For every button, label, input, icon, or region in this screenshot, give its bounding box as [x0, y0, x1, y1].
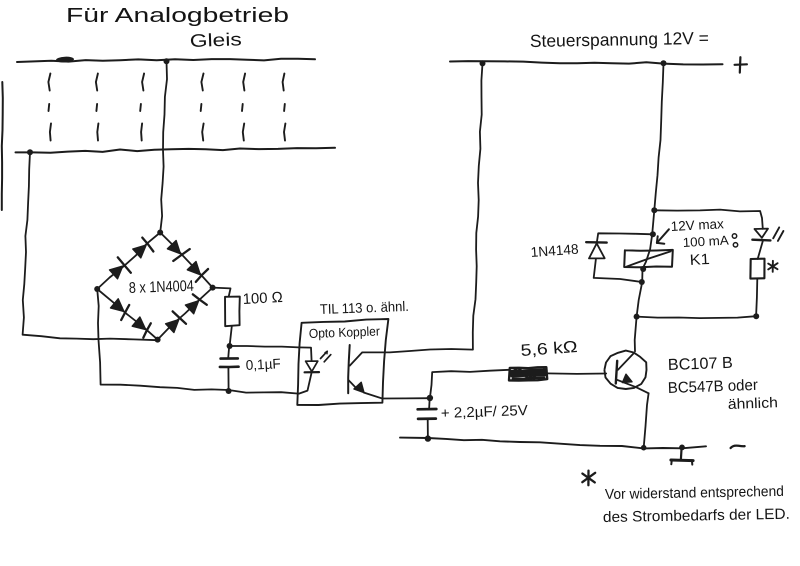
junction dot bridge top vertex	[157, 230, 163, 236]
junction dot C2 on ground bus	[425, 435, 431, 441]
track sleeper dashes	[48, 74, 285, 141]
diode D10 1N4148 triangle	[589, 243, 605, 258]
wire C1 bottom plate to bus	[227, 367, 229, 391]
opto phototransistor collector arm	[350, 352, 362, 365]
wire +12V down to opto collector	[362, 63, 482, 352]
junction dot rail to relay branch	[661, 60, 667, 66]
bridge edge bottom-right	[158, 288, 213, 340]
svg-text:des Strombedarfs der LED.: des Strombedarfs der LED.	[603, 506, 790, 526]
svg-text:Opto Koppler: Opto Koppler	[309, 324, 381, 341]
svg-text:100 mA: 100 mA	[682, 233, 729, 250]
degree circles after 100mA	[732, 234, 737, 247]
svg-text:BC547B oder: BC547B oder	[668, 377, 759, 397]
junction dot bridge left vertex	[94, 286, 100, 292]
wire +12V rail down through relay K1 to collector node	[637, 63, 664, 316]
optocoupler U1 package outline	[297, 319, 388, 405]
opto LED D9 cathode bar	[305, 371, 319, 373]
resistor R1 100 Ohm body	[225, 297, 240, 327]
junction dot Q1 collector node	[634, 314, 640, 320]
bridge diodes D7 D8 (bottom-right arm)	[166, 294, 207, 332]
svg-text:0,1µF: 0,1µF	[245, 355, 281, 373]
label Opto Koppler	[309, 324, 381, 341]
label K1	[689, 251, 710, 269]
opto phototransistor base line	[348, 345, 350, 393]
bridge diodes D5 D6 (left-bottom arm)	[111, 299, 151, 338]
asterisk marker at R3	[768, 261, 777, 272]
transistor Q1 collector arm	[618, 353, 634, 369]
transistor Q1 base bar	[616, 361, 617, 384]
label BC107 B	[668, 355, 734, 374]
wire node down to C2	[428, 398, 431, 409]
svg-text:5,6 kΩ: 5,6 kΩ	[520, 338, 578, 360]
opto LED light arrows	[321, 351, 331, 362]
svg-text:12V max: 12V max	[670, 216, 724, 234]
capacitor C1 0,1uF plates	[220, 358, 239, 367]
wire node to opto LED anode	[230, 346, 299, 347]
wire +12V supply rail	[450, 61, 723, 64]
svg-text:+ 2,2µF/ 25V: + 2,2µF/ 25V	[441, 403, 529, 422]
junction dot relay coil bottom	[640, 266, 646, 272]
wire relay top node to LED anode	[654, 210, 763, 229]
LED D11 cathode bar	[752, 238, 770, 241]
junction dot opto emitter node	[427, 395, 433, 401]
wire top rail to bridge top	[160, 61, 167, 232]
junction dot Q1 emitter on ground bus	[641, 445, 647, 451]
wire node up and right to R2	[430, 370, 510, 398]
svg-text:Vor widerstand entsprechend: Vor widerstand entsprechend	[605, 484, 784, 503]
label Gleis	[189, 29, 242, 51]
junction dot bridge bottom vertex	[155, 337, 161, 343]
wire R2 to Q1 base	[547, 372, 606, 375]
wire opto LED cathode lead	[299, 373, 312, 394]
svg-text:ähnlich: ähnlich	[728, 395, 779, 413]
wire track top rail	[17, 59, 315, 62]
bridge edge left-bottom	[97, 289, 157, 340]
wire diode bottom to relay branch	[594, 259, 642, 282]
junction dot diode top wire	[650, 231, 656, 237]
svg-text:BC107 B: BC107 B	[668, 355, 734, 374]
wire R3 to LED branch bottom	[756, 279, 757, 316]
label Fuer Analogbetrieb	[66, 5, 289, 27]
transistor Q1 circle	[604, 351, 646, 389]
label 1N4148	[530, 241, 579, 260]
bridge edge left-top	[97, 233, 160, 290]
junction dot diode bottom wire	[639, 279, 645, 285]
wire LED cathode to R3	[758, 241, 763, 259]
wire ground bus	[400, 438, 706, 449]
svg-text:Für Analogbetrieb: Für Analogbetrieb	[66, 5, 289, 27]
minus terminal dash	[731, 446, 745, 448]
relay actuation arrow	[657, 229, 669, 244]
wire bridge left vertex down and right to C1 and opto LED anode-side bus	[97, 289, 298, 394]
wire node down to C1 top plate	[228, 346, 229, 358]
svg-text:K1: K1	[689, 251, 710, 269]
junction dot top rail / bridge feed	[164, 58, 170, 64]
label TIL 113 o. aehnl.	[320, 298, 410, 317]
wire diode top to relay branch	[597, 233, 653, 242]
svg-text:TIL 113 o. ähnl.: TIL 113 o. ähnl.	[320, 298, 410, 317]
transistor Q1 emitter arrowhead	[622, 374, 632, 382]
label 0,1uF	[245, 355, 281, 373]
label Steuerspannung 12V=	[530, 28, 709, 51]
junction dot R1/C1/opto node	[227, 343, 233, 349]
bridge diodes D1 D2 (left-top arm)	[110, 238, 154, 279]
solder blob on top rail	[56, 56, 74, 63]
relay K1 coil diagonal	[627, 251, 671, 266]
asterisk footnote marker	[582, 471, 595, 486]
relay K1 coil box	[624, 250, 673, 267]
wire track bottom rail	[16, 148, 336, 153]
wire bottom rail down-left and right to bridge bottom	[23, 152, 158, 340]
bridge diodes D3 D4 (top-right arm)	[167, 241, 208, 282]
label 100 mA	[682, 233, 729, 250]
junction dot ground symbol	[679, 445, 685, 451]
label 12V max	[670, 216, 724, 234]
label footnote line 2	[603, 506, 790, 526]
resistor R2 5,6kOhm body (scribbled)	[509, 367, 547, 380]
wire R1 bottom to node	[230, 326, 232, 346]
junction dot LED branch bottom	[753, 313, 759, 319]
wire bridge right vertex to R1 top	[213, 288, 231, 297]
wire Q1 collector up	[635, 317, 637, 352]
wire Q1 emitter down to ground bus	[644, 393, 649, 447]
opto phototransistor emitter arrowhead	[354, 382, 364, 392]
ground symbol	[671, 448, 693, 465]
junction dot C1 bottom on bus	[226, 388, 232, 394]
wire opto emitter out to node	[364, 393, 430, 399]
junction dot rail to opto collector	[480, 60, 486, 66]
wire collector node to LED branch bottom	[637, 316, 757, 318]
label 100 Ohm	[242, 289, 283, 308]
label aehnlich	[728, 395, 779, 413]
opto LED D9 triangle	[306, 361, 318, 371]
bridge edge top-right	[160, 233, 212, 288]
label footnote line 1	[605, 484, 784, 503]
svg-text:Gleis: Gleis	[189, 29, 242, 51]
diode D10 1N4148 cathode bar	[586, 241, 607, 244]
LED D11 triangle	[755, 229, 769, 238]
junction dot bottom rail / left feed	[27, 149, 33, 155]
label 8x1N4004	[129, 278, 195, 297]
label + 2,2uF/ 25V	[441, 403, 529, 422]
svg-text:1N4148: 1N4148	[530, 241, 579, 260]
svg-text:8 x 1N4004: 8 x 1N4004	[129, 278, 195, 297]
LED D11 light arrows	[773, 227, 783, 241]
junction dot bridge right vertex	[210, 285, 216, 291]
opto phototransistor emitter arm	[349, 380, 358, 390]
label 5,6 kOhm	[520, 338, 578, 360]
resistor R3 LED series body	[750, 259, 764, 279]
capacitor C2 2,2uF plates	[418, 409, 437, 419]
wire opto LED anode lead	[299, 347, 312, 361]
transistor Q1 emitter arm	[617, 380, 649, 394]
svg-text:100 Ω: 100 Ω	[242, 289, 283, 308]
wire C2 bottom to ground bus	[427, 419, 429, 438]
svg-text:Steuerspannung 12V =: Steuerspannung 12V =	[530, 28, 709, 51]
junction dot relay top / LED branch	[651, 207, 657, 213]
plus terminal symbol	[735, 57, 747, 72]
label BC547B oder	[668, 377, 759, 397]
paper-edge line left	[2, 82, 3, 210]
